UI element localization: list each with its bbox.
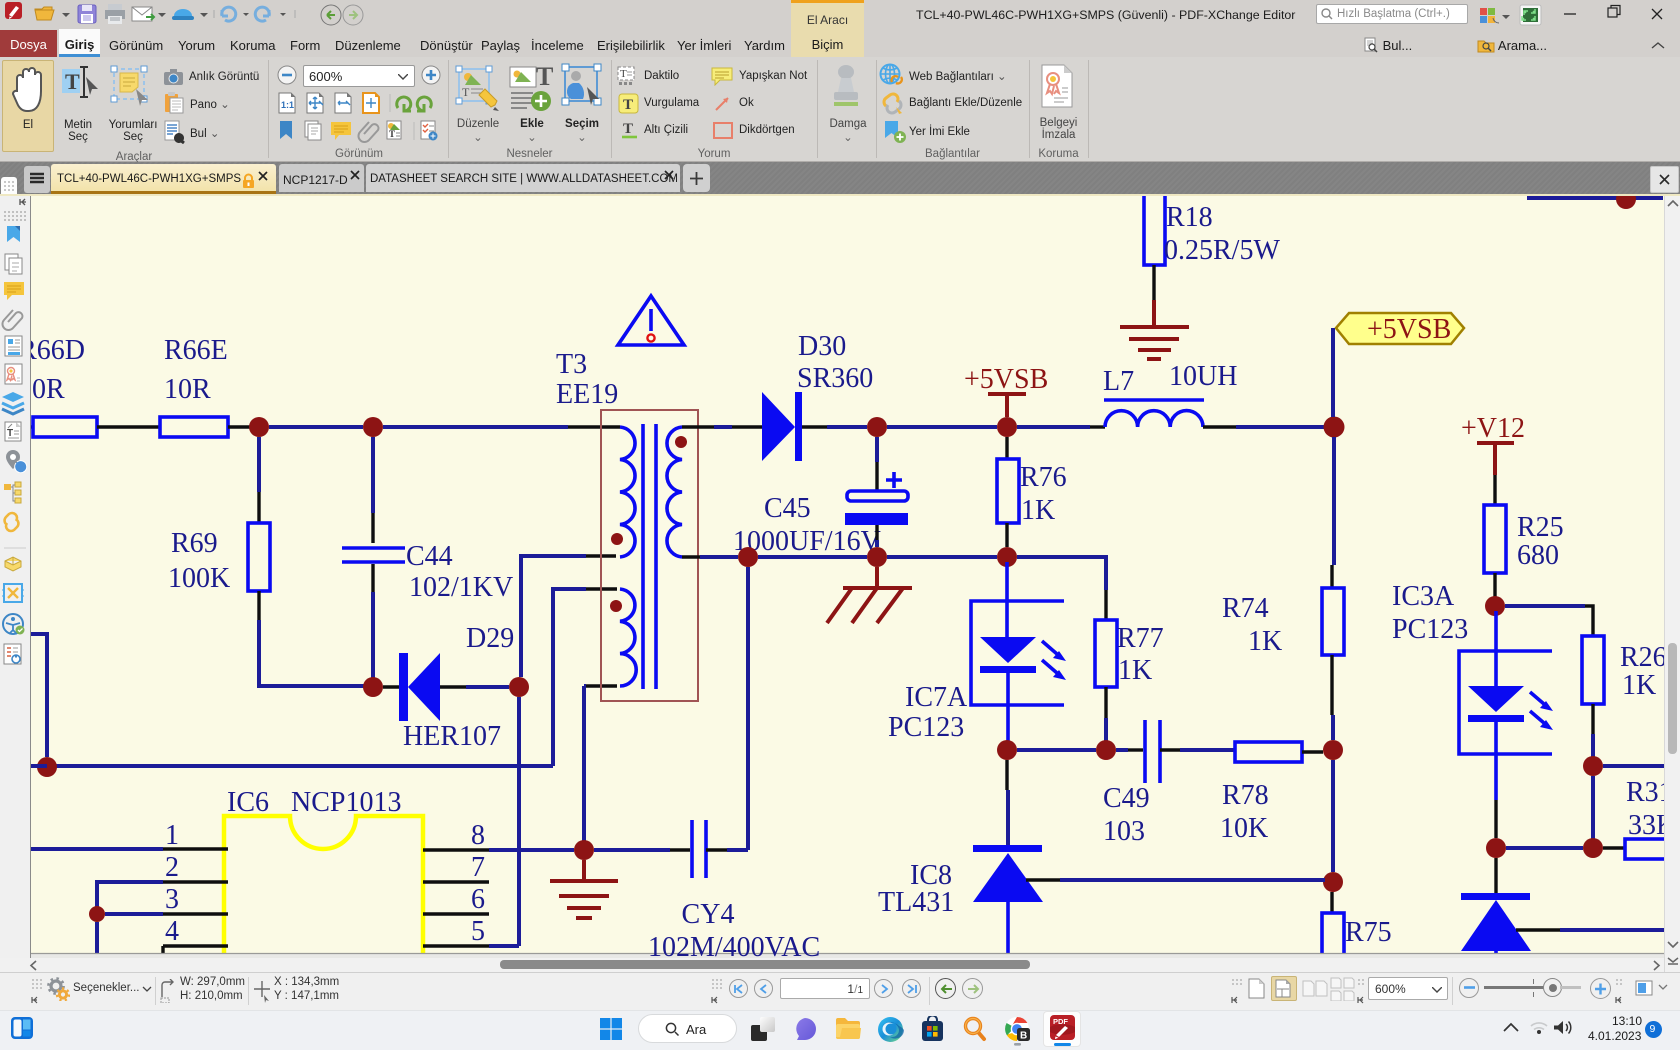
Görünüm group xyxy=(277,65,297,86)
inductor L7 xyxy=(1104,400,1204,427)
Bağlantılar group xyxy=(879,63,903,87)
svg-text:R18: R18 xyxy=(1166,202,1213,233)
svg-text:T: T xyxy=(620,68,627,80)
svg-text:+5VSB: +5VSB xyxy=(1367,314,1451,345)
resistor R78 xyxy=(1235,742,1302,762)
wire R76 to node L xyxy=(1005,523,1008,547)
resistor R26 xyxy=(1582,636,1604,704)
wire node H down to C45 xyxy=(875,437,879,462)
svg-text:R78: R78 xyxy=(1222,780,1269,811)
wire top right net xyxy=(1527,196,1663,200)
svg-text:1K: 1K xyxy=(1622,670,1656,701)
svg-text:PC123: PC123 xyxy=(888,712,964,743)
svg-text:2: 2 xyxy=(165,852,179,883)
svg-text:TL431: TL431 xyxy=(878,887,954,918)
Pano xyxy=(164,92,184,114)
junction top right xyxy=(1616,189,1636,209)
wire R26 to node R xyxy=(1591,704,1594,734)
svg-text:0R: 0R xyxy=(32,374,65,405)
wire +V12 to R25 xyxy=(1493,475,1496,505)
capacitor CY4 xyxy=(692,820,706,878)
svg-text:102M/400VAC: 102M/400VAC xyxy=(648,932,820,958)
wire T3 primary bottom to node D vertical xyxy=(586,554,616,557)
capacitor C45 polarized xyxy=(845,472,908,525)
junction node F xyxy=(574,840,594,860)
wire node U down xyxy=(95,922,99,953)
wire node G to node K xyxy=(758,555,867,559)
svg-text:5: 5 xyxy=(471,916,485,947)
wire T3 aux winding bottom xyxy=(586,684,617,687)
junction node L xyxy=(997,547,1017,567)
wire node J down to R74 xyxy=(1332,437,1336,565)
svg-text:IC3A: IC3A xyxy=(1392,581,1455,612)
svg-text:HER107: HER107 xyxy=(403,721,501,752)
svg-text:1K: 1K xyxy=(1118,655,1152,686)
IC6 pin 4 xyxy=(163,944,228,947)
svg-text:R25: R25 xyxy=(1517,512,1564,543)
wire node Q to R26 xyxy=(1505,604,1585,608)
wire node M down to IC8 xyxy=(1005,760,1008,790)
junction node E xyxy=(37,757,57,777)
wire aux return rail xyxy=(47,764,553,768)
wire R69 down and right to node C xyxy=(257,591,260,620)
junction node B xyxy=(363,417,383,437)
wire left rail to R66D xyxy=(31,425,33,428)
wire node H to node I xyxy=(887,425,997,429)
svg-text:SR360: SR360 xyxy=(797,363,873,394)
junction node P xyxy=(1323,872,1343,892)
IC6 pin 5 xyxy=(423,944,489,947)
Metin Seç xyxy=(60,65,104,109)
wire node A to node B xyxy=(269,425,363,429)
junction node S xyxy=(1583,838,1603,858)
svg-text:D30: D30 xyxy=(798,331,846,362)
svg-text:C45: C45 xyxy=(764,493,811,524)
svg-text:EE19: EE19 xyxy=(556,379,618,410)
IC6 pin 6 xyxy=(423,912,489,915)
svg-text:NCP1013: NCP1013 xyxy=(291,787,401,818)
svg-text:10R: 10R xyxy=(164,374,211,405)
wire node D corner to IC6 pin 5 xyxy=(489,944,519,948)
wire node M to node N xyxy=(1017,748,1096,752)
El button selected xyxy=(2,60,54,152)
Damga xyxy=(831,64,861,114)
svg-text:33K: 33K xyxy=(1628,810,1664,841)
wire node P to R75 xyxy=(1330,892,1333,913)
svg-text:T: T xyxy=(536,63,553,91)
svg-text:R31: R31 xyxy=(1626,777,1664,808)
wire node L to R77 xyxy=(1017,557,1106,590)
wire IC6 pin8 to node F xyxy=(489,848,574,852)
svg-text:100K: 100K xyxy=(168,563,230,594)
svg-text:IC7A: IC7A xyxy=(905,682,968,713)
wire node K to node L xyxy=(887,555,997,559)
resistor R74 xyxy=(1322,588,1344,655)
wire node S to R31 xyxy=(1603,846,1625,849)
resistor R76 xyxy=(997,459,1019,523)
diode D30 xyxy=(762,392,802,461)
net flag +5VSB xyxy=(1336,313,1464,345)
wire IC4 ref to right edge xyxy=(1516,928,1560,931)
svg-text:1:1: 1:1 xyxy=(281,100,294,110)
svg-text:D29: D29 xyxy=(466,623,514,654)
IC6 NCP1013 body xyxy=(224,816,423,961)
wire node R to right edge xyxy=(1603,764,1664,768)
svg-text:T: T xyxy=(623,97,633,113)
resistor R31 xyxy=(1625,839,1671,859)
wire R77 to node N xyxy=(1104,687,1107,718)
IC6 pin 1 xyxy=(163,847,228,850)
svg-text:R74: R74 xyxy=(1222,593,1269,624)
svg-text:1K: 1K xyxy=(1021,495,1055,526)
wire node F to CY4 xyxy=(594,848,670,852)
junction node H xyxy=(867,417,887,437)
ground below node F xyxy=(550,860,618,918)
shunt regulator IC4 TL431 xyxy=(1461,893,1531,953)
svg-text:T: T xyxy=(389,129,395,139)
svg-text:C49: C49 xyxy=(1103,783,1150,814)
svg-text:7: 7 xyxy=(471,852,485,883)
wire node T down to IC4 xyxy=(1494,858,1497,893)
svg-text:T3: T3 xyxy=(556,349,587,380)
junction node D xyxy=(509,677,529,697)
wire T3 aux winding top left xyxy=(586,587,617,590)
junction node T xyxy=(1486,838,1506,858)
wire T3 secondary top to D30 xyxy=(682,425,714,428)
power port +5VSB xyxy=(964,364,1048,417)
resistor R75 xyxy=(1322,913,1344,973)
wire R66E to node A xyxy=(228,425,259,428)
capacitor C44 xyxy=(342,548,405,562)
wire C44 down to node C xyxy=(371,564,374,592)
wire R18 to ground xyxy=(1152,265,1155,302)
svg-text:L7: L7 xyxy=(1103,366,1134,397)
svg-text:T: T xyxy=(7,428,13,439)
wire IC3A down to node T xyxy=(1494,800,1497,838)
svg-text:102/1KV: 102/1KV xyxy=(409,572,513,603)
svg-text:10K: 10K xyxy=(1220,813,1268,844)
svg-text:103: 103 xyxy=(1103,816,1145,847)
ground below R18 xyxy=(1120,327,1189,359)
junction node K xyxy=(867,547,887,567)
optocoupler IC3A xyxy=(1459,611,1553,800)
warning triangle xyxy=(618,296,684,345)
wire D30 to node H xyxy=(802,425,827,428)
junction node R xyxy=(1583,756,1603,776)
svg-text:IC6: IC6 xyxy=(227,787,269,818)
wire L7 to node J xyxy=(1203,425,1236,428)
svg-text:0.25R/5W: 0.25R/5W xyxy=(1164,235,1280,266)
resistor R18 xyxy=(1144,190,1165,265)
wire IC6 pin 2 to node U xyxy=(97,882,163,914)
wire R74 to node O xyxy=(1330,655,1333,715)
junction node N xyxy=(1096,740,1116,760)
svg-text:6: 6 xyxy=(471,884,485,915)
wire D29 to node D xyxy=(440,685,466,688)
svg-text:C44: C44 xyxy=(406,541,453,572)
svg-text:4: 4 xyxy=(165,916,179,947)
wire node A down to R69 xyxy=(257,437,261,492)
junction node A xyxy=(249,417,269,437)
Anlık Görüntü xyxy=(163,68,184,86)
wire IC6 pin 3 to node U xyxy=(105,912,163,916)
svg-text:R66E: R66E xyxy=(164,335,228,366)
svg-text:R66D: R66D xyxy=(31,335,85,366)
svg-text:R69: R69 xyxy=(171,528,218,559)
IC6 pin 7 xyxy=(423,880,489,883)
junction node M xyxy=(997,740,1017,760)
Koruma group xyxy=(1040,64,1074,108)
wire node E to left edge xyxy=(31,764,47,768)
junction node J xyxy=(1324,417,1345,438)
wire CY4 to riser xyxy=(706,848,727,851)
resistor R25 xyxy=(1484,505,1506,573)
transformer T3 xyxy=(601,410,698,701)
wire node I to L7 xyxy=(1017,425,1090,429)
svg-text:10UH: 10UH xyxy=(1169,361,1237,392)
resistor R77 xyxy=(1095,620,1117,687)
svg-text:3: 3 xyxy=(165,884,179,915)
svg-text:+5VSB: +5VSB xyxy=(964,364,1048,395)
wire +5VSB flag down through node J to R74 xyxy=(1331,328,1335,417)
junction node Q xyxy=(1485,596,1505,616)
svg-text:PDF: PDF xyxy=(1053,1017,1068,1026)
Nesneler group xyxy=(455,63,501,113)
junction node G xyxy=(738,547,758,567)
svg-text:680: 680 xyxy=(1517,540,1559,571)
Bul xyxy=(164,120,186,144)
IC6 pin 3 xyxy=(163,912,228,915)
Yorum group xyxy=(617,66,640,86)
wire IC8 ref to node P xyxy=(1026,878,1060,881)
resistor R66D xyxy=(33,417,97,437)
wire R78 to node O xyxy=(1302,750,1323,753)
svg-text:T: T xyxy=(623,121,633,137)
wire node T to node S xyxy=(1506,846,1583,850)
wire node C to D29 xyxy=(383,685,400,688)
junction node U xyxy=(89,906,105,922)
resistor R69 xyxy=(248,523,270,591)
svg-text:1: 1 xyxy=(165,820,179,851)
diode D29 xyxy=(399,653,440,721)
junction node I (+5VSB) xyxy=(997,417,1017,437)
wire riser up to node G xyxy=(746,567,750,850)
wire node I down to R76 xyxy=(1005,437,1008,459)
wire R66D to R66E xyxy=(97,425,160,428)
svg-text:+V12: +V12 xyxy=(1461,413,1525,444)
wire node R down to node S xyxy=(1591,776,1595,848)
wire T3 secondary bottom to node G xyxy=(682,555,700,558)
Yorumları Seç xyxy=(108,65,156,109)
svg-text:CY4: CY4 xyxy=(682,899,735,930)
wire node O to node P xyxy=(1331,760,1335,872)
IC6 pin 8 xyxy=(423,848,489,851)
wire C49 to R78 xyxy=(1160,748,1180,751)
wire node B down to C44 xyxy=(371,437,375,513)
chassis ground below node K xyxy=(827,567,912,623)
shunt regulator IC8 TL431 xyxy=(973,845,1043,953)
svg-text:1K: 1K xyxy=(1248,626,1282,657)
svg-text:PC123: PC123 xyxy=(1392,614,1468,645)
svg-text:R76: R76 xyxy=(1020,462,1067,493)
wire node E up and left xyxy=(31,634,47,757)
svg-text:T: T xyxy=(65,69,80,94)
svg-text:R75: R75 xyxy=(1345,917,1392,948)
svg-text:B: B xyxy=(1020,1031,1027,1042)
optocoupler IC7A xyxy=(971,562,1066,750)
contextual tab El Aracı / Biçim xyxy=(791,0,864,57)
svg-text:R77: R77 xyxy=(1117,623,1164,654)
wire C45 to node K xyxy=(875,525,878,540)
junction node O xyxy=(1323,740,1343,760)
resistor R66E xyxy=(160,417,228,437)
wire IC6 pin 4 down xyxy=(161,946,164,953)
svg-text:8: 8 xyxy=(471,820,485,851)
IC6 pin 2 xyxy=(163,880,228,883)
junction node C xyxy=(363,677,383,697)
wire node N to C49 xyxy=(1116,748,1128,752)
wire R25 to node Q xyxy=(1493,573,1496,600)
svg-text:T: T xyxy=(462,85,470,99)
wire IC6 pin 1 to left edge xyxy=(31,847,163,851)
group separators xyxy=(268,60,269,158)
svg-text:R26: R26 xyxy=(1620,642,1664,673)
capacitor C49 xyxy=(1145,720,1160,783)
power port +V12 xyxy=(1461,413,1525,475)
page bottom gap xyxy=(31,953,1664,962)
wire node B to T3 primary top xyxy=(383,425,568,429)
